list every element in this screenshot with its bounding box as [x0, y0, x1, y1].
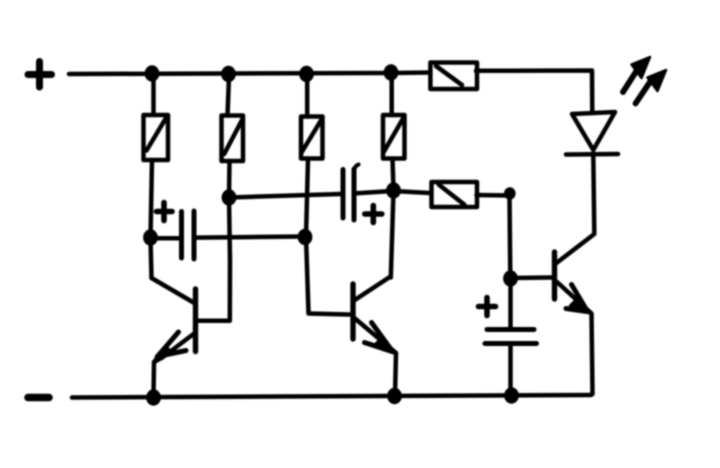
node + terminal (positive supply label)	[28, 62, 52, 88]
wire C1 right lead to node on R3 line	[197, 237, 304, 238]
resistor R5 (series LED resistor, horizontal)	[430, 63, 477, 90]
node junction dot top rail 2	[221, 66, 236, 82]
wire R2 down through C2 node to base wire of Q1	[229, 161, 230, 320]
node junction dot bottom rail 2 (Q2 emitter)	[387, 388, 402, 404]
wire R6 to Q3 base node	[477, 195, 511, 279]
node junction dot top rail 3	[299, 66, 314, 82]
transistor Q3 collector lead	[556, 234, 595, 264]
wire R3 down through C1 node to base wire of Q2	[306, 159, 309, 313]
transistor Q2 emitter arrow	[365, 323, 397, 356]
node junction dot bottom rail 3 (C3)	[504, 387, 519, 403]
node - terminal (negative supply label)	[28, 394, 49, 402]
wire R1 to C1 node / collector Q1	[151, 160, 153, 278]
transistor Q1 emitter arrow	[153, 332, 186, 361]
node junction dot C1 left (collector Q1 node)	[143, 229, 158, 245]
LED D1 cathode bar	[566, 152, 618, 157]
transistor Q3 emitter lead	[557, 282, 593, 394]
transistor Q2 emitter lead	[355, 319, 396, 397]
node junction dot bottom rail 1 (Q1 emitter)	[146, 389, 161, 405]
capacitor C1 polarity +	[157, 203, 173, 221]
transistor Q3 emitter arrow	[566, 285, 591, 315]
transistor Q2 base bar	[350, 284, 355, 339]
wire R4 down through C2-right node to collector Q2	[391, 159, 394, 278]
wire top supply rail	[69, 73, 430, 75]
node junction dot top rail 1	[145, 65, 160, 81]
transistor Q1 base bar	[193, 289, 198, 352]
capacitor C3 polarity +	[479, 298, 496, 316]
LED light emission arrow 1	[623, 57, 650, 92]
capacitor C3 plates	[485, 330, 537, 344]
wire Q1 base wire	[198, 319, 230, 324]
capacitor C2 plates	[343, 165, 359, 221]
wire stub rail to R2	[228, 76, 230, 116]
capacitor C2 polarity +	[365, 206, 382, 223]
resistor R3	[301, 117, 323, 159]
wire C2 right lead	[357, 191, 392, 193]
capacitor C1 plates	[182, 211, 195, 259]
resistor R1	[144, 115, 169, 160]
wire C2 left lead	[229, 194, 341, 198]
node junction dot top rail 4	[384, 64, 399, 80]
node junction dot C2 right (collector Q2 node)	[386, 182, 401, 198]
resistor R2	[222, 116, 244, 162]
wire C3 to bottom rail	[508, 344, 513, 396]
node junction dot Q3 base node	[503, 270, 518, 286]
node junction dot C2 left (base Q1 node)	[222, 189, 237, 205]
transistor Q3 base bar	[552, 252, 557, 299]
node junction dot C1 right (base Q2 node)	[298, 229, 313, 245]
transistor Q1 collector lead	[152, 278, 194, 303]
wire node to R6	[394, 191, 431, 193]
LED D1 triangle	[572, 112, 615, 150]
wire stub rail to R1	[151, 76, 156, 112]
wire stub rail to R3	[305, 76, 310, 117]
wire LED cathode to collector Q3	[593, 155, 594, 233]
wire Q3 base node to base bar	[511, 275, 552, 280]
transistor Q1 emitter lead	[154, 333, 196, 397]
resistor R6 (base resistor of Q3, horizontal)	[432, 182, 478, 207]
wire bottom supply rail	[72, 395, 591, 398]
wire stub rail to R4	[389, 75, 394, 115]
LED light emission arrow 2	[636, 70, 667, 104]
node corner blob at R6 wire bend	[504, 187, 516, 199]
resistor R4	[383, 115, 405, 159]
wire R5 to LED anode corner	[476, 71, 592, 114]
wire node down to C3	[508, 279, 513, 330]
transistor Q2 collector lead	[354, 278, 389, 301]
wire C1 left lead	[151, 236, 180, 241]
wire Q2 base wire	[309, 314, 350, 315]
